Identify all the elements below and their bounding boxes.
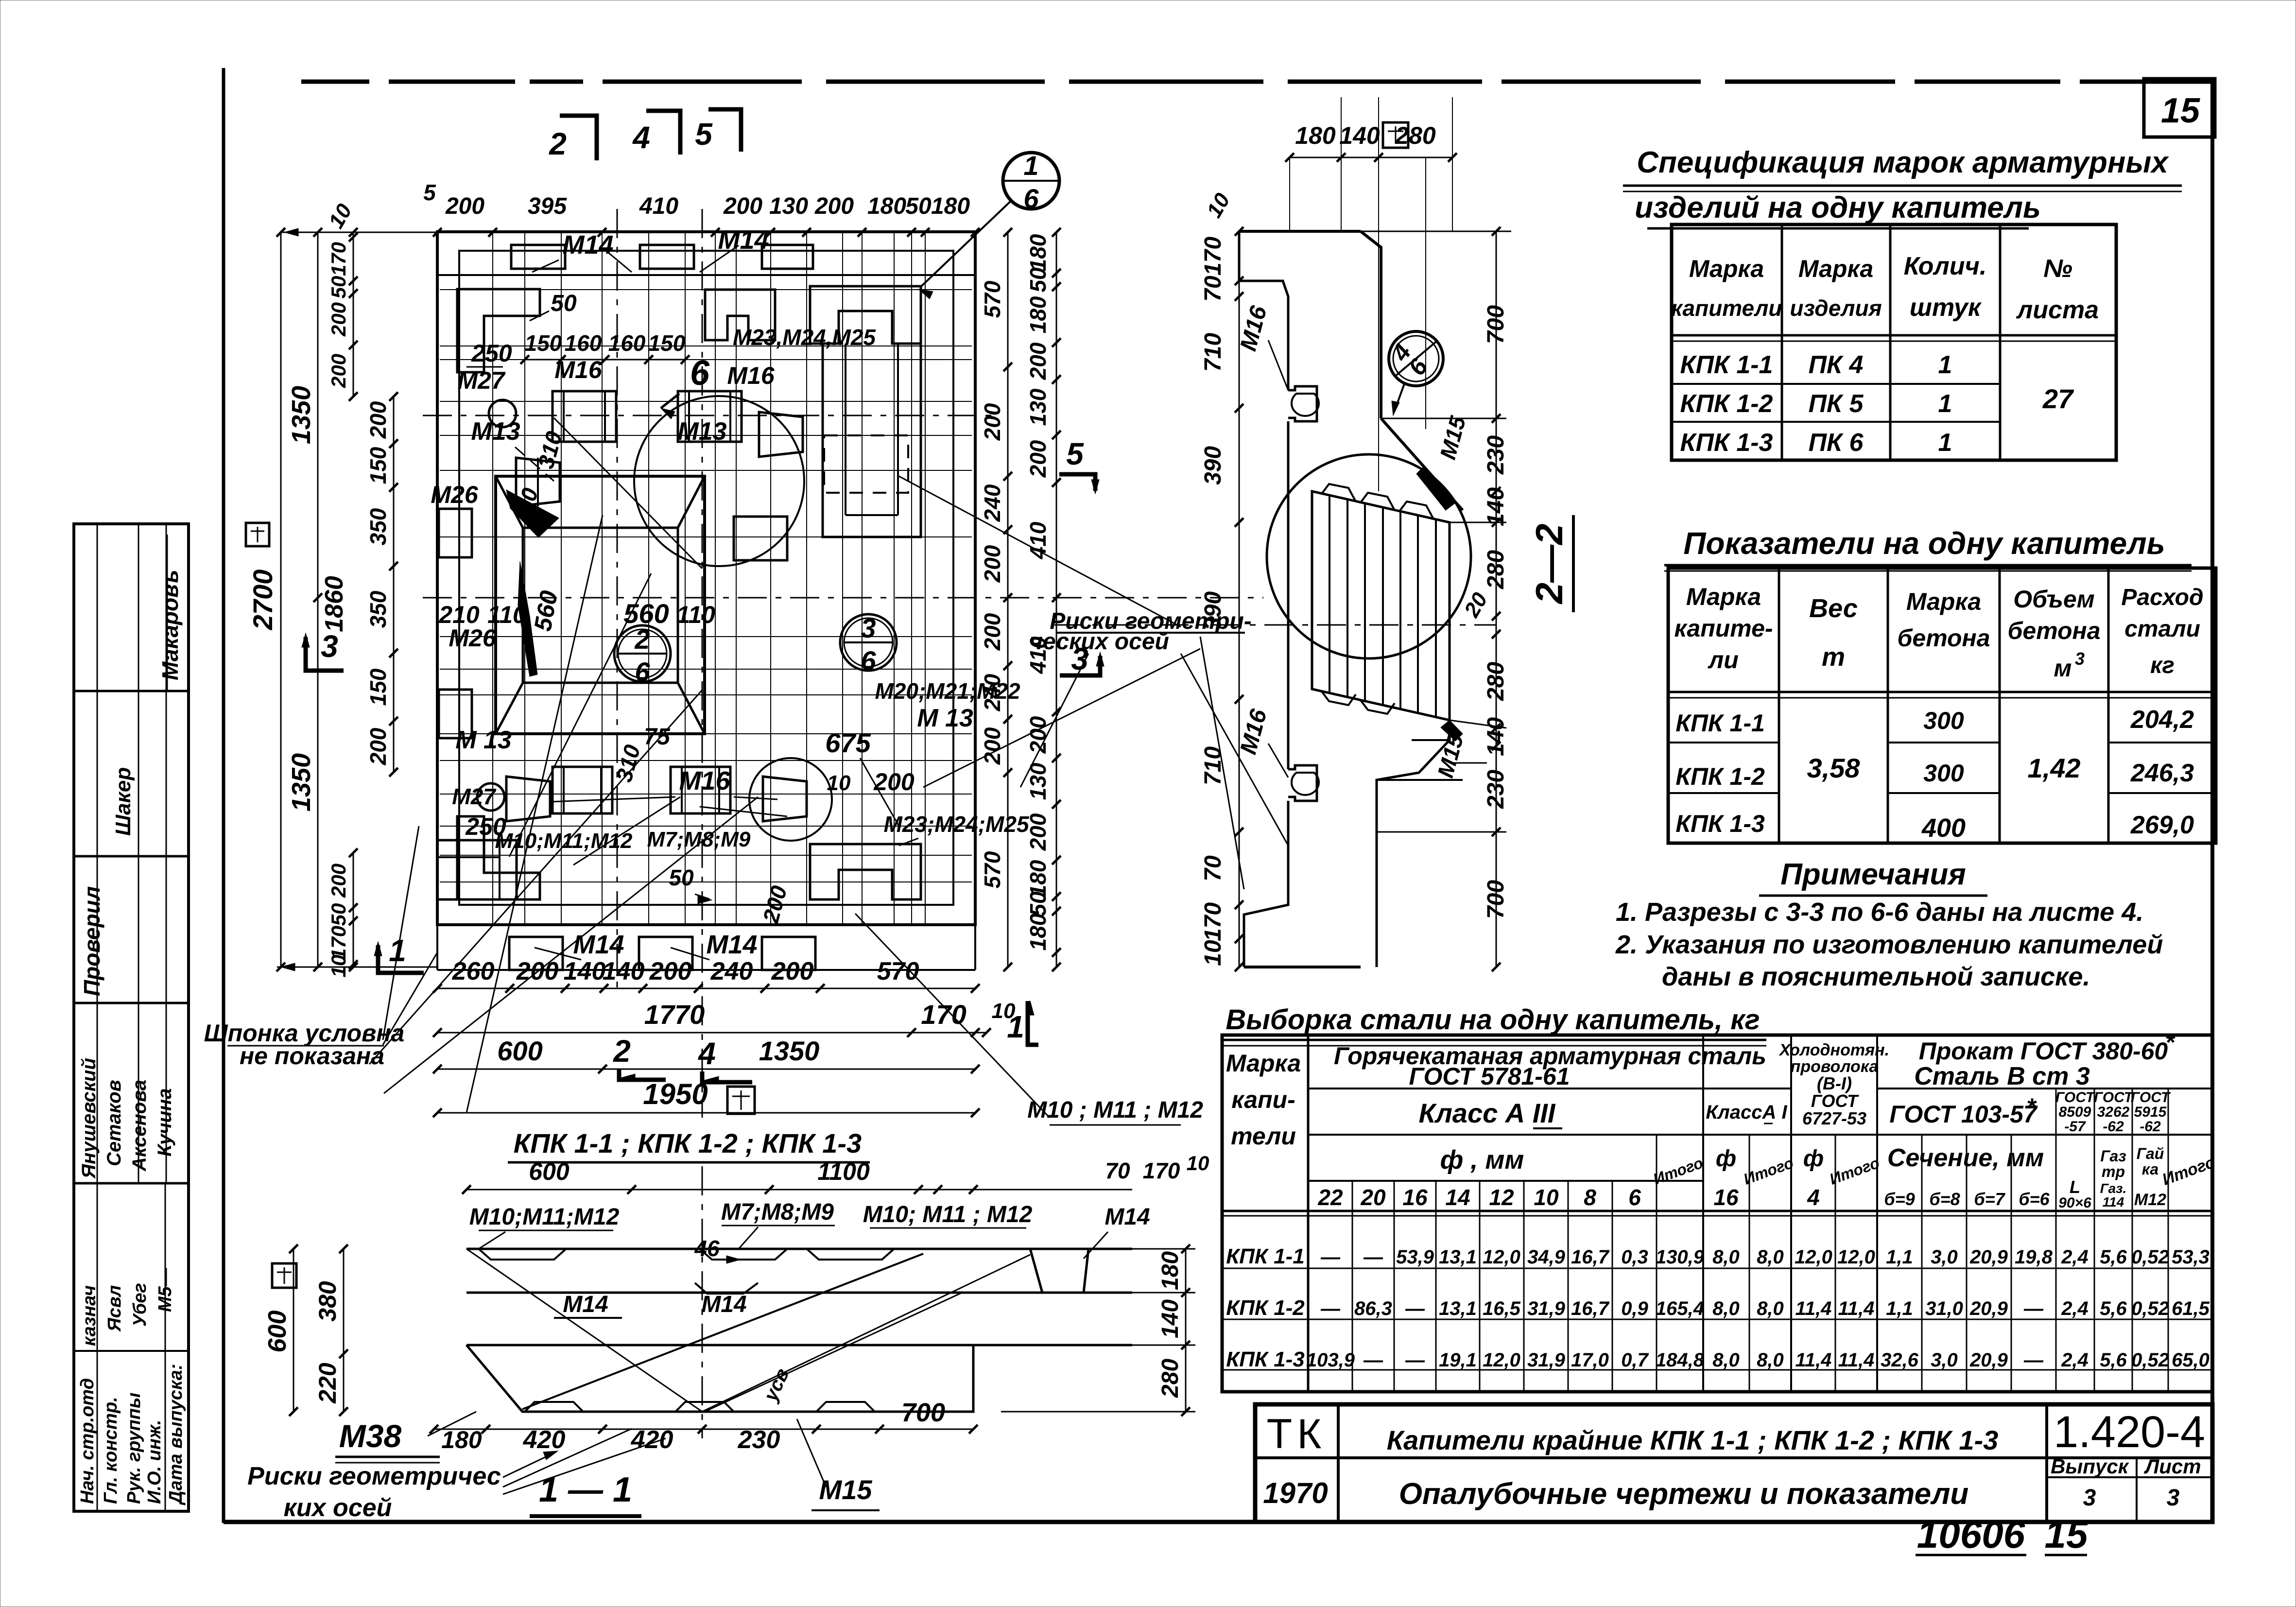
stamp column inner vertical lines bbox=[97, 524, 98, 1511]
svg-text:300: 300 bbox=[1923, 707, 1964, 734]
svg-text:1350: 1350 bbox=[287, 386, 316, 444]
svg-text:—: — bbox=[1405, 1349, 1425, 1371]
svg-text:—: — bbox=[1363, 1246, 1383, 1268]
plan detail bubble 3/6 bbox=[840, 614, 897, 671]
svg-text:53,3: 53,3 bbox=[2172, 1246, 2210, 1268]
svg-text:3262: 3262 bbox=[2097, 1104, 2130, 1120]
svg-text:16,5: 16,5 bbox=[1483, 1298, 1521, 1319]
plan detail circle 6 dashed bbox=[634, 396, 804, 566]
svg-text:L: L bbox=[2070, 1177, 2080, 1197]
svg-text:Марка: Марка bbox=[1689, 255, 1764, 282]
spec table row dividers bbox=[1672, 383, 2000, 385]
svg-text:КПК 1-1: КПК 1-1 bbox=[1226, 1244, 1305, 1268]
svg-text:50: 50 bbox=[905, 193, 932, 219]
svg-text:200: 200 bbox=[365, 727, 391, 765]
svg-text:1: 1 bbox=[1023, 150, 1038, 181]
svg-text:Марка: Марка bbox=[1906, 588, 1981, 615]
svg-text:2: 2 bbox=[549, 126, 567, 161]
svg-text:75: 75 bbox=[644, 724, 671, 750]
svg-text:31,9: 31,9 bbox=[1527, 1298, 1566, 1319]
svg-text:180: 180 bbox=[1295, 122, 1336, 149]
svg-text:М10 ; М11 ; М12: М10 ; М11 ; М12 bbox=[1027, 1097, 1203, 1123]
svg-text:Показатели на одну капитель: Показатели на одну капитель bbox=[1683, 526, 2165, 561]
plan frustum dark smudge top-left bbox=[506, 490, 559, 537]
svg-text:110: 110 bbox=[676, 601, 715, 628]
svg-text:КПК 1-3: КПК 1-3 bbox=[1226, 1348, 1305, 1371]
svg-text:6: 6 bbox=[635, 657, 650, 687]
plan dim row 150 160 160 150 bbox=[525, 359, 685, 361]
svg-text:8,0: 8,0 bbox=[1712, 1246, 1740, 1268]
svg-text:220: 220 bbox=[314, 1363, 341, 1404]
plan bottom dim chain row3 600 1350 bbox=[437, 1069, 975, 1070]
svg-text:280: 280 bbox=[1157, 1359, 1183, 1398]
svg-text:М14: М14 bbox=[563, 1292, 608, 1317]
svg-text:600: 600 bbox=[263, 1311, 292, 1353]
svg-text:М10;М11;М12: М10;М11;М12 bbox=[495, 829, 633, 853]
svg-text:5915: 5915 bbox=[2134, 1104, 2167, 1120]
svg-text:140: 140 bbox=[603, 957, 645, 985]
svg-text:ф: ф bbox=[1716, 1146, 1736, 1172]
svg-text:246,3: 246,3 bbox=[2130, 759, 2194, 787]
svg-text:стали: стали bbox=[2124, 616, 2200, 642]
svg-text:ГОСТ: ГОСТ bbox=[1811, 1091, 1859, 1111]
plan circle around lower bolt bbox=[749, 758, 832, 841]
svg-text:*: * bbox=[2026, 1093, 2037, 1121]
section 1-1 right dims bbox=[1185, 1249, 1187, 1412]
svg-text:1,42: 1,42 bbox=[2028, 753, 2081, 783]
svg-text:11,4: 11,4 bbox=[1838, 1349, 1875, 1371]
svg-text:130: 130 bbox=[769, 193, 808, 219]
plan grid thin verticals bbox=[492, 233, 493, 923]
svg-text:50: 50 bbox=[1025, 891, 1051, 916]
stamp row dividers bbox=[74, 690, 189, 692]
svg-text:М10;М11;М12: М10;М11;М12 bbox=[469, 1204, 620, 1230]
section 1-1 long diagonals bbox=[522, 1254, 923, 1409]
svg-text:М16: М16 bbox=[679, 766, 730, 795]
svg-text:1: 1 bbox=[1938, 429, 1952, 457]
svg-text:0,7: 0,7 bbox=[1621, 1349, 1649, 1371]
svg-text:10: 10 bbox=[827, 771, 851, 795]
plan bolt hourglass mid bbox=[759, 412, 803, 457]
svg-text:-57: -57 bbox=[2064, 1119, 2086, 1135]
svg-text:Рук. группы: Рук. группы bbox=[124, 1393, 144, 1504]
svg-text:2: 2 bbox=[613, 1034, 631, 1069]
svg-text:Прокат ГОСТ 380-60: Прокат ГОСТ 380-60 bbox=[1919, 1037, 2168, 1065]
svg-text:200: 200 bbox=[516, 957, 559, 985]
svg-text:16,7: 16,7 bbox=[1571, 1298, 1610, 1319]
svg-text:380: 380 bbox=[314, 1281, 341, 1322]
svg-text:изделия: изделия bbox=[1790, 295, 1882, 321]
svg-text:*: * bbox=[2165, 1029, 2175, 1056]
svg-text:17,0: 17,0 bbox=[1571, 1349, 1609, 1371]
sheet frame bottom border bbox=[224, 1520, 1255, 1524]
svg-text:Марка: Марка bbox=[1686, 583, 1761, 610]
svg-text:20,9: 20,9 bbox=[1969, 1246, 2008, 1268]
svg-text:11,4: 11,4 bbox=[1838, 1298, 1875, 1319]
plan small circle M27 top bbox=[489, 400, 516, 427]
svg-text:—: — bbox=[2023, 1349, 2044, 1371]
svg-text:3: 3 bbox=[2075, 649, 2085, 669]
svg-text:6: 6 bbox=[1628, 1185, 1641, 1210]
svg-text:Аксенова: Аксенова bbox=[129, 1080, 150, 1172]
svg-text:710: 710 bbox=[1200, 333, 1226, 372]
svg-text:280: 280 bbox=[1395, 122, 1436, 149]
svg-text:не показана: не показана bbox=[240, 1042, 384, 1070]
svg-text:240: 240 bbox=[980, 674, 1005, 711]
section 1-1 bottom dim row bbox=[434, 1429, 973, 1430]
svg-text:6727-53: 6727-53 bbox=[1802, 1108, 1866, 1128]
svg-text:Кучина: Кучина bbox=[154, 1089, 175, 1157]
sheet frame left border bbox=[222, 68, 225, 1523]
svg-text:675: 675 bbox=[825, 727, 871, 758]
svg-text:200: 200 bbox=[1025, 440, 1051, 478]
plan bottom dim chain row1 bbox=[437, 988, 975, 989]
svg-text:Убег: Убег bbox=[130, 1283, 150, 1327]
svg-text:10: 10 bbox=[1187, 1152, 1209, 1175]
plan bolt hourglass top-left bbox=[516, 458, 560, 506]
svg-text:М14: М14 bbox=[562, 230, 613, 259]
svg-text:12,0: 12,0 bbox=[1483, 1246, 1520, 1268]
svg-text:10: 10 bbox=[1200, 940, 1226, 966]
svg-text:140: 140 bbox=[1483, 717, 1509, 756]
svg-text:70: 70 bbox=[1200, 855, 1226, 881]
svg-text:103,9: 103,9 bbox=[1306, 1349, 1355, 1371]
svg-text:Макаровъ: Макаровъ bbox=[157, 570, 183, 680]
plan top band plywood rectangles bbox=[511, 245, 565, 269]
sheet frame right border bbox=[2210, 82, 2214, 1523]
leaders riski mid bbox=[1020, 654, 1088, 787]
svg-text:20,9: 20,9 bbox=[1969, 1298, 2008, 1319]
svg-text:600: 600 bbox=[497, 1036, 542, 1066]
svg-text:5,6: 5,6 bbox=[2100, 1349, 2127, 1371]
svg-text:Газ: Газ bbox=[2100, 1147, 2126, 1165]
svg-text:КПК 1-2: КПК 1-2 bbox=[1226, 1296, 1305, 1320]
svg-text:200: 200 bbox=[649, 957, 692, 985]
svg-text:170: 170 bbox=[1200, 237, 1226, 276]
section 2-2 top dim chain bbox=[1290, 157, 1452, 158]
svg-text:Марка: Марка bbox=[1798, 255, 1873, 282]
svg-text:130: 130 bbox=[1025, 762, 1051, 800]
svg-text:8,0: 8,0 bbox=[1712, 1349, 1740, 1371]
svg-text:изделий на одну капитель: изделий на одну капитель bbox=[1635, 191, 2041, 225]
svg-text:200: 200 bbox=[445, 193, 484, 219]
svg-text:3: 3 bbox=[321, 629, 338, 664]
svg-text:280: 280 bbox=[1483, 662, 1509, 701]
big table frame bbox=[1222, 1035, 2212, 1392]
svg-text:М16: М16 bbox=[554, 356, 602, 383]
svg-text:Выборка стали на одну капитель: Выборка стали на одну капитель, кг bbox=[1226, 1004, 1760, 1036]
section 2-2 axis line bbox=[1054, 624, 1496, 626]
plan left dim chain mid 200 150 350 350 150 200 bbox=[393, 397, 395, 772]
plan bolt hourglass lower-left bbox=[506, 777, 550, 821]
svg-text:3,0: 3,0 bbox=[1931, 1246, 1958, 1268]
plan left small rect bottom bbox=[439, 840, 517, 899]
svg-text:5: 5 bbox=[1066, 436, 1084, 471]
svg-text:200: 200 bbox=[873, 768, 915, 795]
svg-text:3,0: 3,0 bbox=[1931, 1349, 1958, 1371]
svg-text:3: 3 bbox=[861, 613, 876, 643]
svg-text:0,9: 0,9 bbox=[1621, 1298, 1648, 1319]
svg-text:ПК 6: ПК 6 bbox=[1809, 429, 1864, 457]
svg-text:КПК 1-3: КПК 1-3 bbox=[1675, 810, 1765, 837]
section 2-2 lower left edge bbox=[1244, 801, 1288, 967]
svg-text:140: 140 bbox=[564, 957, 606, 985]
svg-text:КПК 1-1: КПК 1-1 bbox=[1675, 709, 1765, 737]
svg-text:м: м bbox=[2054, 655, 2072, 682]
plan bottom dim chain row4 1950 bbox=[437, 1112, 975, 1114]
svg-text:ГОСТ: ГОСТ bbox=[2131, 1089, 2171, 1106]
svg-text:1,1: 1,1 bbox=[1886, 1298, 1913, 1319]
svg-text:б=8: б=8 bbox=[1929, 1189, 1960, 1209]
svg-text:И.О. инж.: И.О. инж. bbox=[144, 1420, 165, 1504]
svg-text:130: 130 bbox=[1025, 388, 1051, 426]
svg-text:кг: кг bbox=[2150, 653, 2175, 678]
svg-text:200: 200 bbox=[365, 401, 391, 439]
svg-text:165,4: 165,4 bbox=[1656, 1298, 1704, 1319]
svg-text:410: 410 bbox=[1025, 521, 1051, 559]
svg-text:КПК 1-2: КПК 1-2 bbox=[1675, 763, 1765, 790]
svg-text:140: 140 bbox=[1483, 487, 1509, 526]
svg-text:27: 27 bbox=[2042, 383, 2074, 414]
svg-text:170: 170 bbox=[1143, 1158, 1180, 1183]
svg-text:240: 240 bbox=[710, 957, 753, 985]
plan bottom band line bbox=[437, 969, 975, 971]
svg-text:штук: штук bbox=[1910, 294, 1982, 322]
svg-text:140: 140 bbox=[1339, 122, 1380, 149]
svg-text:230: 230 bbox=[1483, 770, 1509, 809]
svg-text:-62: -62 bbox=[2103, 1119, 2124, 1135]
plan anchor block bottom-left bbox=[552, 767, 612, 813]
section 2-2 body outline bbox=[1239, 230, 1361, 233]
svg-text:300: 300 bbox=[1923, 760, 1964, 787]
plan corner bracket bottom-right bbox=[810, 844, 921, 899]
svg-text:1: 1 bbox=[1938, 390, 1952, 418]
svg-text:даны в пояснительной записке.: даны в пояснительной записке. bbox=[1662, 962, 2090, 991]
svg-text:Ясвл: Ясвл bbox=[104, 1285, 125, 1332]
plan inner rectangle bbox=[459, 251, 953, 905]
svg-text:6: 6 bbox=[861, 645, 876, 676]
svg-text:200: 200 bbox=[327, 302, 350, 337]
svg-text:—: — bbox=[2023, 1298, 2044, 1319]
svg-text:16: 16 bbox=[1713, 1185, 1739, 1210]
svg-text:—: — bbox=[1405, 1298, 1425, 1319]
section 1-1 lower body bbox=[466, 1345, 973, 1412]
plan bottom dim chain row2 1770 bbox=[437, 1032, 986, 1034]
svg-text:10: 10 bbox=[1534, 1185, 1559, 1210]
svg-text:Выпуск: Выпуск bbox=[2051, 1455, 2129, 1478]
plan left dim chain fine top bbox=[353, 232, 354, 397]
svg-text:170: 170 bbox=[327, 926, 350, 960]
svg-text:М7;М8;М9: М7;М8;М9 bbox=[647, 828, 751, 851]
svg-text:0,52: 0,52 bbox=[2131, 1298, 2169, 1319]
svg-text:Объем: Объем bbox=[2013, 586, 2094, 613]
svg-text:т: т bbox=[1822, 642, 1845, 672]
svg-text:350: 350 bbox=[365, 590, 391, 628]
svg-text:Нач. стр.отд: Нач. стр.отд bbox=[77, 1378, 98, 1504]
section 2-2 right dim chain bbox=[1496, 231, 1497, 967]
svg-text:350: 350 bbox=[365, 508, 391, 545]
svg-text:61,5: 61,5 bbox=[2172, 1298, 2210, 1319]
svg-text:—: — bbox=[1363, 1349, 1383, 1371]
svg-text:200: 200 bbox=[327, 864, 350, 898]
svg-text:3,58: 3,58 bbox=[1807, 753, 1861, 783]
svg-text:М12: М12 bbox=[2134, 1191, 2166, 1209]
svg-text:Гл. констр.: Гл. констр. bbox=[101, 1397, 121, 1504]
sheet frame top broken line bbox=[301, 80, 369, 84]
section 2-2 left dim chain bbox=[1239, 231, 1240, 967]
svg-text:М5—: М5— bbox=[155, 1267, 175, 1312]
svg-text:200: 200 bbox=[980, 403, 1005, 441]
svg-text:1350: 1350 bbox=[287, 753, 316, 812]
section 2-2 ribbed block bbox=[1312, 491, 1450, 720]
svg-text:—: — bbox=[1320, 1246, 1341, 1268]
svg-text:М27: М27 bbox=[457, 367, 505, 394]
svg-text:тр: тр bbox=[2102, 1163, 2125, 1180]
svg-text:М14: М14 bbox=[706, 930, 757, 959]
svg-text:50: 50 bbox=[669, 865, 694, 890]
plan bottom band plywood rectangles bbox=[509, 937, 563, 970]
svg-text:570: 570 bbox=[980, 851, 1005, 888]
section 2-2 big circle bbox=[1267, 454, 1471, 658]
svg-text:15: 15 bbox=[2161, 91, 2200, 130]
svg-text:КПК 1-1: КПК 1-1 bbox=[1680, 351, 1773, 379]
svg-text:13,1: 13,1 bbox=[1439, 1298, 1477, 1319]
svg-text:180: 180 bbox=[1025, 234, 1051, 271]
svg-text:200: 200 bbox=[980, 727, 1005, 765]
svg-text:4: 4 bbox=[1807, 1185, 1820, 1210]
svg-text:50: 50 bbox=[551, 291, 577, 316]
leader from bubble 1/6 to plan bbox=[921, 200, 1012, 287]
svg-text:114: 114 bbox=[2103, 1194, 2124, 1210]
plan arrow into frustum bbox=[554, 418, 702, 569]
svg-text:170: 170 bbox=[327, 242, 350, 276]
svg-text:12,0: 12,0 bbox=[1795, 1246, 1832, 1268]
svg-text:150: 150 bbox=[365, 447, 391, 484]
svg-text:140: 140 bbox=[1157, 1299, 1183, 1338]
svg-text:700: 700 bbox=[1483, 880, 1509, 919]
svg-text:0,52: 0,52 bbox=[2131, 1349, 2169, 1371]
svg-text:2. Указания по изготовлению: 2. Указания по изготовлению капителей bbox=[1615, 930, 2163, 959]
section 1-1 mid line2 bbox=[466, 1344, 1132, 1347]
svg-text:70: 70 bbox=[1105, 1158, 1130, 1183]
svg-text:2,4: 2,4 bbox=[2061, 1349, 2089, 1371]
svg-text:-62: -62 bbox=[2140, 1119, 2161, 1135]
svg-text:570: 570 bbox=[980, 280, 1005, 318]
svg-text:200: 200 bbox=[1025, 342, 1051, 380]
svg-text:ГОСТ: ГОСТ bbox=[2094, 1089, 2134, 1106]
svg-text:8509: 8509 bbox=[2059, 1104, 2091, 1120]
svg-text:М13: М13 bbox=[471, 417, 520, 446]
svg-text:М15: М15 bbox=[819, 1474, 873, 1505]
svg-text:ГОСТ 5781-61: ГОСТ 5781-61 bbox=[1409, 1063, 1570, 1090]
svg-text:М16: М16 bbox=[727, 362, 775, 389]
svg-text:8,0: 8,0 bbox=[1757, 1246, 1784, 1268]
svg-text:1: 1 bbox=[1938, 351, 1952, 379]
svg-text:(В-I): (В-I) bbox=[1817, 1073, 1852, 1093]
svg-text:31,0: 31,0 bbox=[1925, 1298, 1963, 1319]
svg-text:260: 260 bbox=[452, 957, 495, 985]
svg-text:200: 200 bbox=[1025, 813, 1051, 851]
plan right dim chain mid bbox=[1007, 232, 1009, 967]
svg-text:4: 4 bbox=[697, 1036, 716, 1071]
svg-text:ГОСТ: ГОСТ bbox=[2055, 1089, 2096, 1106]
plan frustum corner diagonals bbox=[496, 476, 523, 528]
section 2-2 M15 wedge lower bbox=[1441, 720, 1463, 741]
svg-text:2700: 2700 bbox=[247, 570, 278, 631]
plan long leader lines bbox=[369, 690, 702, 1064]
svg-text:капи-: капи- bbox=[1231, 1086, 1295, 1113]
svg-text:19,8: 19,8 bbox=[2015, 1246, 2053, 1268]
svg-text:420: 420 bbox=[631, 1426, 673, 1454]
svg-text:10: 10 bbox=[327, 955, 350, 978]
svg-text:Капители крайние КПК 1-1 ; КП: Капители крайние КПК 1-1 ; КПК 1-2 ; КПК… bbox=[1387, 1425, 1999, 1455]
svg-text:М14: М14 bbox=[718, 225, 769, 255]
svg-text:М13: М13 bbox=[677, 417, 726, 446]
svg-text:—: — bbox=[1320, 1298, 1341, 1319]
plan anchor block mid-right bbox=[734, 517, 787, 560]
svg-text:180: 180 bbox=[441, 1426, 482, 1453]
svg-text:200: 200 bbox=[814, 193, 854, 219]
svg-text:184,8: 184,8 bbox=[1656, 1349, 1705, 1371]
svg-text:М23,М24,М25: М23,М24,М25 bbox=[733, 325, 876, 350]
svg-text:2,4: 2,4 bbox=[2061, 1298, 2089, 1319]
svg-text:ка: ка bbox=[2142, 1160, 2158, 1178]
svg-text:1.420-4: 1.420-4 bbox=[2054, 1407, 2205, 1457]
svg-text:10606: 10606 bbox=[1917, 1513, 2025, 1556]
svg-text:тели: тели bbox=[1231, 1123, 1296, 1150]
svg-text:250: 250 bbox=[471, 340, 512, 367]
pokazateli table frame bbox=[1668, 568, 2216, 843]
svg-text:8,0: 8,0 bbox=[1712, 1298, 1740, 1319]
svg-text:капители: капители bbox=[1671, 295, 1782, 321]
plan left axis box symbol bbox=[246, 523, 269, 546]
section 2-2 M15 wedge upper bbox=[1416, 467, 1455, 510]
svg-text:Холоднотян.: Холоднотян. bbox=[1778, 1041, 1889, 1059]
svg-text:ф , мм: ф , мм bbox=[1440, 1145, 1524, 1175]
plan detail ellipse top-right bbox=[801, 250, 962, 518]
section 2-2 rib bumps bottom bbox=[1322, 691, 1356, 705]
svg-text:КПК 1-1 ; КПК 1-2 ; КПК 1-3: КПК 1-1 ; КПК 1-2 ; КПК 1-3 bbox=[514, 1128, 862, 1158]
svg-text:М14: М14 bbox=[1105, 1204, 1150, 1230]
section 2-2 lower right edge bbox=[1377, 720, 1450, 967]
svg-text:5,6: 5,6 bbox=[2100, 1246, 2127, 1268]
svg-text:90×6: 90×6 bbox=[2058, 1195, 2091, 1211]
svg-text:Колич.: Колич. bbox=[1904, 252, 1987, 280]
svg-text:180: 180 bbox=[867, 193, 906, 219]
svg-text:230: 230 bbox=[1483, 435, 1509, 475]
svg-text:170: 170 bbox=[921, 999, 966, 1030]
svg-text:листа: листа bbox=[2016, 296, 2099, 324]
svg-text:410: 410 bbox=[639, 193, 678, 219]
spec table frame bbox=[1672, 225, 2116, 460]
svg-text:200: 200 bbox=[980, 545, 1005, 583]
svg-text:10: 10 bbox=[992, 999, 1016, 1023]
svg-text:31,9: 31,9 bbox=[1527, 1349, 1566, 1371]
plan right dim chain fine bbox=[1056, 232, 1057, 967]
svg-text:ПК 4: ПК 4 bbox=[1809, 351, 1864, 379]
svg-text:Янушевский: Янушевский bbox=[78, 1058, 100, 1179]
svg-text:Риски геометричес: Риски геометричес bbox=[247, 1462, 501, 1490]
stamp column outer box bbox=[74, 524, 189, 1511]
plan central frustum outer square bbox=[496, 476, 705, 734]
plan dashed inner rectangle right bbox=[824, 435, 908, 493]
svg-text:ф: ф bbox=[1803, 1146, 1824, 1172]
svg-text:8: 8 bbox=[1584, 1185, 1596, 1210]
svg-text:3: 3 bbox=[2167, 1485, 2180, 1511]
svg-text:16: 16 bbox=[1402, 1185, 1428, 1210]
big table header horizontal lines bbox=[1308, 1088, 1791, 1089]
svg-text:М27: М27 bbox=[452, 784, 497, 809]
